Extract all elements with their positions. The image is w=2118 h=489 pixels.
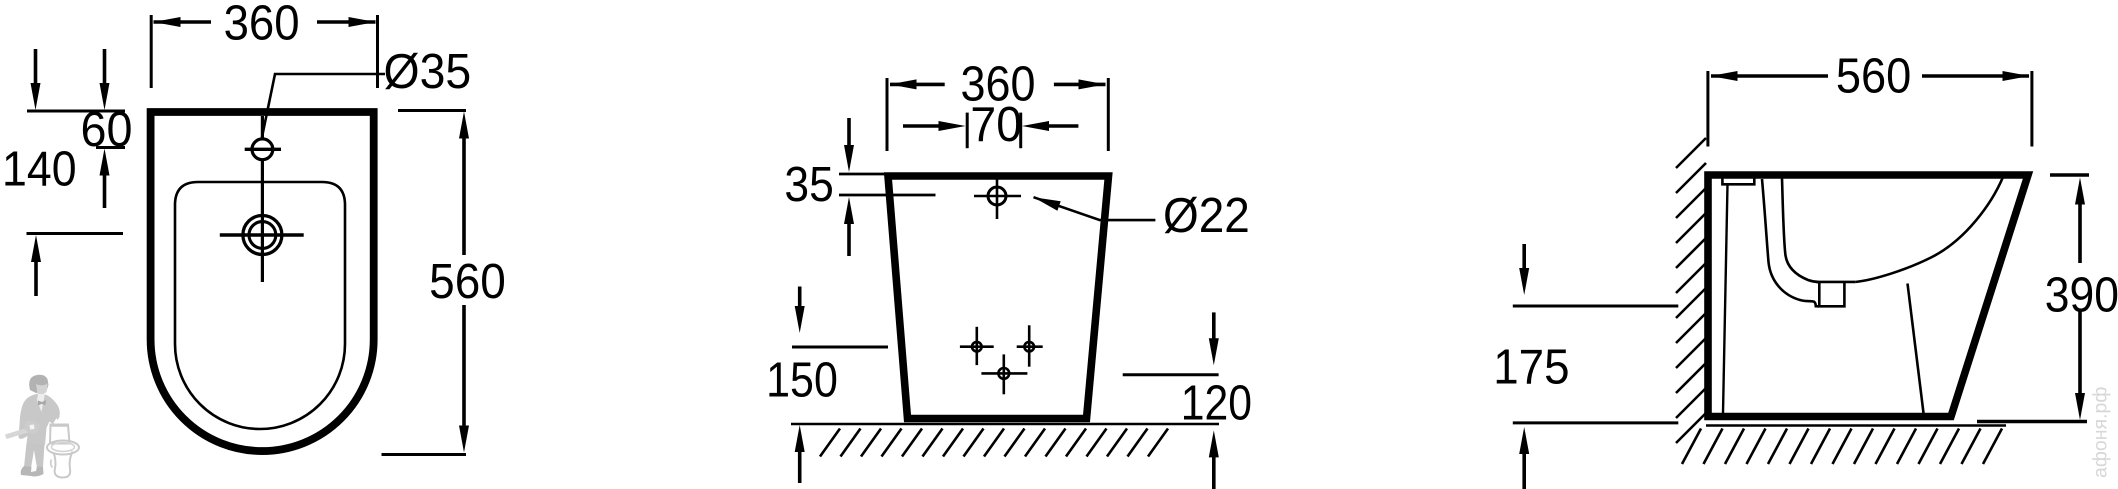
side view: bowl front edge line: [1908, 284, 1924, 414]
leader line O35: [262, 45, 471, 137]
top view: inner basin outline: [175, 182, 345, 429]
dimension 140 (drain offset): [2, 143, 123, 297]
svg-text:175: 175: [1493, 341, 1569, 395]
svg-text:560: 560: [1836, 50, 1911, 104]
top view: faucet hole (O35): [245, 139, 281, 160]
watermark: vertical site text: [2090, 387, 2112, 478]
side view: bowl rear wall line: [1782, 179, 1819, 282]
front view: left mounting hole: [960, 327, 994, 365]
side view: basin bowl curve: [1855, 177, 2003, 282]
dimension 560 (top view height): [382, 111, 506, 455]
front view: bidet trapezoid body: [888, 176, 1109, 419]
front view: ground hatching: [820, 429, 1168, 457]
svg-text:35: 35: [784, 158, 833, 212]
front view: bottom drain hole: [981, 354, 1027, 394]
side view: bidet body outline: [1708, 175, 2028, 417]
side view: ground line: [1706, 424, 2006, 427]
svg-text:Ø22: Ø22: [1163, 189, 1250, 243]
side view: wall hatching: [1676, 138, 1706, 443]
dimension 560 (side view depth): [1708, 50, 2032, 147]
side view: rim channel line into trap: [1762, 179, 1819, 306]
leader line O22: [1034, 189, 1250, 243]
top view: bidet outer outline: [151, 112, 374, 451]
svg-text:150: 150: [766, 354, 838, 408]
front view: faucet hole (O22): [974, 178, 1021, 220]
dimension 70 (hole spacing): [903, 98, 1078, 152]
svg-text:360: 360: [224, 0, 300, 51]
watermark: plumber logo: [5, 375, 79, 478]
side view: drain trap section: [1816, 282, 1855, 306]
top view: vertical centerline: [261, 116, 264, 282]
side view: ground hatching: [1682, 429, 2002, 465]
front view: right mounting hole: [1017, 325, 1043, 366]
dimension 390 (side view height): [1977, 175, 2118, 422]
dimension 360 (front view width): [887, 58, 1108, 152]
svg-text:70: 70: [970, 98, 1022, 152]
dimension 175 (ledge height): [1493, 244, 1678, 489]
svg-text:афоня.рф: афоня.рф: [2090, 387, 2112, 478]
dimension 150 (mount holes height): [766, 287, 888, 484]
dimension 360 (top view width): [151, 0, 377, 88]
svg-text:120: 120: [1181, 377, 1252, 431]
dimension 35 (faucet hole offset): [784, 118, 935, 256]
dimension 60 (hole offset): [27, 49, 133, 208]
svg-text:560: 560: [429, 255, 506, 309]
svg-text:140: 140: [2, 143, 77, 197]
side view: faucet hole section: [1722, 177, 1754, 184]
top view: drain hole circles: [220, 216, 304, 255]
dimension 120 (drain height): [1123, 312, 1252, 489]
front view: ground line: [791, 423, 1219, 426]
side view: interior back wall line: [1723, 184, 1728, 413]
svg-text:Ø35: Ø35: [384, 45, 472, 99]
